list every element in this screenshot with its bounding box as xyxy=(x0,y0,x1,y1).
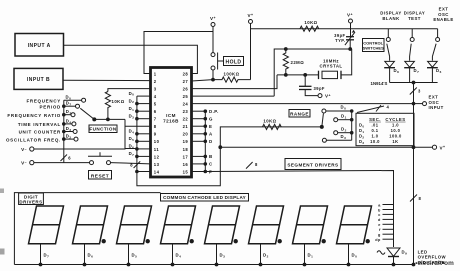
wire stub to D bus xyxy=(125,148,137,150)
wire pin 19 D xyxy=(192,140,206,142)
bus slash 8 left xyxy=(134,161,141,168)
svg-text:22: 22 xyxy=(183,117,189,122)
wire control top rail xyxy=(251,28,438,30)
svg-text:f: f xyxy=(379,228,381,232)
LED D9 overflow xyxy=(387,248,400,256)
resistor R4 10K function pullup xyxy=(105,92,110,120)
svg-text:16: 16 xyxy=(183,162,189,167)
svg-text:LED: LED xyxy=(418,249,428,254)
svg-text:3: 3 xyxy=(418,89,421,94)
function contact row UNIT COUNTER D3 xyxy=(63,130,66,133)
svg-text:14: 14 xyxy=(154,169,160,174)
wire function common xyxy=(94,118,125,120)
svg-text:9: 9 xyxy=(154,132,157,137)
svg-text:18: 18 xyxy=(183,147,189,152)
svg-text:c: c xyxy=(378,213,381,217)
wire bus 4 into table xyxy=(357,106,384,113)
resistor R5 10K range xyxy=(263,124,282,129)
digit 2 seven segment xyxy=(73,206,108,244)
range contact D3 xyxy=(322,138,326,142)
svg-text:d: d xyxy=(378,218,381,222)
svg-text:0.1: 0.1 xyxy=(371,128,378,133)
wire pin 4 D0 xyxy=(137,95,151,97)
switch S5 display blank xyxy=(387,29,389,38)
wire trimmer to crystal rail xyxy=(349,40,351,49)
svg-text:G: G xyxy=(209,117,213,122)
power V+ terminal 1 xyxy=(211,23,215,27)
svg-text:UNIT COUNTER: UNIT COUNTER xyxy=(19,130,61,135)
svg-text:F: F xyxy=(209,169,212,174)
svg-text:RESET: RESET xyxy=(91,173,109,179)
svg-text:OSCILLATOR FREQ.: OSCILLATOR FREQ. xyxy=(6,137,61,142)
svg-text:D: D xyxy=(209,139,213,144)
svg-text:10: 10 xyxy=(154,139,160,144)
op-amp U1 ICM7216B IC body xyxy=(151,68,192,178)
segment ladder tick f xyxy=(383,228,394,230)
svg-text:1.0: 1.0 xyxy=(371,134,378,139)
wire function select bus xyxy=(63,100,65,162)
node function common 10K xyxy=(107,118,110,121)
svg-text:1N914'S: 1N914'S xyxy=(371,81,388,86)
switch S2 FUNCTION blade xyxy=(93,118,96,121)
node 22M top xyxy=(284,48,287,51)
svg-text:15: 15 xyxy=(183,169,189,174)
svg-text:INPUT: INPUT xyxy=(429,105,444,110)
label box CONTROL SWITCHES xyxy=(363,39,385,52)
svg-text:TIME INTERVAL: TIME INTERVAL xyxy=(18,122,61,127)
wire pin 16 C xyxy=(192,163,206,165)
wire V- to reset xyxy=(34,162,90,164)
range contact D0 xyxy=(322,109,326,113)
wire display common bottom bus xyxy=(14,264,413,266)
svg-text:21: 21 xyxy=(183,124,189,129)
wire pin 24 to ext osc node xyxy=(192,103,414,105)
node 22M bottom xyxy=(284,74,287,77)
svg-text:CRYSTAL: CRYSTAL xyxy=(320,64,343,69)
segment ladder tick e xyxy=(383,223,394,225)
svg-text:6: 6 xyxy=(154,109,157,114)
label box HOLD xyxy=(224,57,244,66)
label box COMMON CATHODE LED DISPLAY xyxy=(161,194,249,202)
svg-text:100.0: 100.0 xyxy=(389,134,402,139)
svg-text:39pF: 39pF xyxy=(314,86,325,91)
digit 1 lead D7 xyxy=(40,244,42,265)
svg-text:•eleciruit•om: •eleciruit•om xyxy=(415,260,454,267)
wire INPUT A to pin 28 xyxy=(64,45,198,73)
decimal point digit 2 xyxy=(102,240,105,243)
svg-text:DISPLAY: DISPLAY xyxy=(380,11,401,16)
input jack INPUT A box xyxy=(15,34,64,57)
svg-text:7: 7 xyxy=(154,117,157,122)
digit 5 seven segment xyxy=(205,206,240,244)
wire 100K to V+ 2 xyxy=(250,24,252,80)
digit 4 lead D4 xyxy=(172,244,174,265)
svg-text:b: b xyxy=(378,208,381,212)
bus slash 8 right xyxy=(410,195,417,202)
digit 4 seven segment xyxy=(161,206,196,244)
terminal V- 2 xyxy=(30,161,34,165)
svg-text:25: 25 xyxy=(183,94,189,99)
svg-text:A: A xyxy=(209,132,213,137)
svg-text:PERIOD: PERIOD xyxy=(40,104,62,109)
svg-text:100KΩ: 100KΩ xyxy=(224,72,240,77)
wire pin 6 D1 xyxy=(136,110,139,113)
svg-text:E: E xyxy=(209,124,212,129)
bus slash 6 xyxy=(61,155,68,162)
svg-text:1.0: 1.0 xyxy=(392,123,399,128)
input jack INPUT B box xyxy=(14,68,63,89)
bus slash 3 xyxy=(410,88,417,95)
function contact row FREQUENCY D0 xyxy=(64,99,82,101)
function contact row FREQ RATIO D1 xyxy=(63,113,66,116)
diode D6 xyxy=(431,57,433,61)
svg-text:SWITCHES: SWITCHES xyxy=(363,46,384,51)
svg-text:26: 26 xyxy=(183,87,189,92)
digit 6 seven segment xyxy=(249,206,284,244)
svg-text:OSC: OSC xyxy=(429,100,440,105)
capacitor C2 39pF xyxy=(304,75,306,86)
function contact row OSCILLATOR FREQ D2 xyxy=(63,138,66,141)
wire pin 8 stub xyxy=(125,125,151,127)
svg-text:23: 23 xyxy=(183,109,189,114)
wire crystal right to rail xyxy=(341,49,352,75)
power V+ terminal 3 xyxy=(349,19,353,23)
svg-text:C: C xyxy=(209,162,213,167)
wire junction to pin 27 xyxy=(192,80,214,81)
wire diode common xyxy=(390,82,438,84)
digit 1 seven segment xyxy=(29,206,64,244)
svg-text:2: 2 xyxy=(154,79,157,84)
wire pin 21 E xyxy=(192,125,206,127)
svg-text:TEST: TEST xyxy=(408,16,421,21)
wire pin 20 A xyxy=(192,133,206,135)
switch S6 display test xyxy=(411,29,413,38)
svg-text:HOLD: HOLD xyxy=(226,60,242,66)
svg-text:11: 11 xyxy=(154,147,160,152)
svg-text:4: 4 xyxy=(154,94,157,99)
table decimal point select box xyxy=(356,113,414,145)
function contact row TIME INTERVAL D4 xyxy=(63,123,66,126)
segment ladder tick b xyxy=(383,209,394,211)
resistor R1 100K xyxy=(213,77,251,82)
wire range node to Vplus right xyxy=(220,146,432,148)
digit 3 lead D5 xyxy=(128,244,130,265)
svg-text:BLANK: BLANK xyxy=(382,16,400,21)
svg-text:D.P.: D.P. xyxy=(209,109,219,114)
svg-text:INPUT B: INPUT B xyxy=(27,77,50,83)
svg-text:10KΩ: 10KΩ xyxy=(112,99,125,104)
terminal EXT OSC INPUT xyxy=(423,102,427,106)
svg-text:DRIVERS: DRIVERS xyxy=(19,200,42,205)
function contact row PERIOD D7 xyxy=(63,105,66,108)
svg-text:SEC.: SEC. xyxy=(369,117,381,122)
decimal point digit 6 xyxy=(278,240,281,243)
switch S7 ext osc enable xyxy=(437,29,439,38)
wire reset to pin 13 xyxy=(111,163,151,164)
diode D8 xyxy=(389,57,391,61)
resistor R2 10K top xyxy=(300,26,319,31)
digit 7 seven segment xyxy=(293,206,328,244)
svg-text:EXT: EXT xyxy=(439,7,449,12)
svg-text:g: g xyxy=(378,233,381,237)
svg-text:DISPLAY: DISPLAY xyxy=(404,11,425,16)
range contact D2 xyxy=(334,131,338,135)
wire pin 14 range xyxy=(137,171,151,173)
wire pin 10 D5 xyxy=(136,140,139,143)
wire segment drivers line xyxy=(205,171,393,248)
wire range collector xyxy=(351,111,353,140)
svg-text:12: 12 xyxy=(154,154,160,159)
digit 6 lead D2 xyxy=(260,244,262,265)
label box RESET xyxy=(89,171,112,180)
range contact D1 xyxy=(334,118,338,122)
svg-text:3: 3 xyxy=(154,87,157,92)
svg-text:e: e xyxy=(378,223,381,227)
label box DIGIT DRIVERS xyxy=(19,193,44,205)
digit 2 lead D6 xyxy=(84,244,86,265)
decimal point digit 3 xyxy=(146,240,149,243)
wire pin 17 B xyxy=(192,155,206,157)
wire INPUT B to pin 2 xyxy=(63,79,151,81)
svg-text:ICM: ICM xyxy=(166,113,176,118)
wire pin 3 to 10K xyxy=(108,89,151,92)
svg-text:13: 13 xyxy=(154,162,160,167)
svg-text:8: 8 xyxy=(130,163,133,168)
svg-text:10.0: 10.0 xyxy=(370,139,380,144)
wire control bus down right side xyxy=(413,83,415,265)
decimal point digit 7 xyxy=(322,240,325,243)
svg-text:10.0: 10.0 xyxy=(391,128,401,133)
switch S4 RANGE blade xyxy=(320,125,323,128)
svg-text:dp: dp xyxy=(375,238,381,242)
wire range node down and under IC xyxy=(137,127,322,186)
wire pin 1 to hold switch top xyxy=(144,32,213,74)
switch S1 HOLD pushbutton xyxy=(211,53,215,57)
svg-text:28: 28 xyxy=(183,71,189,76)
svg-text:OSC: OSC xyxy=(438,12,449,17)
resistor R3 22M xyxy=(283,49,288,75)
wire pin 23 DP xyxy=(192,110,206,112)
wire pin 26 up xyxy=(192,75,278,89)
label box SEGMENT DRIVERS xyxy=(285,159,341,170)
svg-text:a: a xyxy=(378,203,381,207)
decimal point digit 8 xyxy=(366,240,369,243)
wire hold bottom to pin 27 junction xyxy=(212,70,214,80)
power V+ terminal 4 xyxy=(318,94,322,98)
digit 5 lead D3 xyxy=(216,244,218,265)
label box FUNCTION xyxy=(89,125,117,133)
wire crystal top rail xyxy=(274,49,352,96)
svg-text:4: 4 xyxy=(387,105,390,110)
bus slash 8 segment xyxy=(246,162,253,169)
svg-text:20: 20 xyxy=(183,132,189,137)
segment ladder tick g xyxy=(383,233,394,235)
svg-text:OVERFLOW: OVERFLOW xyxy=(418,255,447,260)
digit 8 lead D0 xyxy=(348,244,350,265)
svg-text:SEGMENT DRIVERS: SEGMENT DRIVERS xyxy=(287,163,338,168)
wire pin 9 D4 xyxy=(136,133,139,136)
svg-text:5: 5 xyxy=(154,102,157,107)
decimal point digit 4 xyxy=(190,240,193,243)
wire segment bus vertical xyxy=(204,111,206,171)
svg-text:17: 17 xyxy=(183,154,189,159)
svg-text:19: 19 xyxy=(183,139,189,144)
node junction pin27 xyxy=(212,78,215,81)
wire pin 5 D2 xyxy=(136,102,139,105)
power V+ terminal right xyxy=(432,145,436,149)
wire crystal left node xyxy=(277,74,319,76)
segment ladder tick a xyxy=(383,204,394,206)
wire pin 7 D3 xyxy=(136,117,139,120)
crystal Y1 10MHz xyxy=(318,71,320,79)
svg-text:INPUT A: INPUT A xyxy=(28,43,51,49)
decimal point digit 5 xyxy=(234,240,237,243)
segment ladder tick d xyxy=(383,218,394,220)
node cap branch xyxy=(304,74,307,77)
svg-text:.01: .01 xyxy=(371,123,378,128)
svg-text:1: 1 xyxy=(154,71,157,76)
digit 8 seven segment xyxy=(337,206,372,244)
diode D7 xyxy=(409,57,411,61)
segment ladder tick dp xyxy=(383,238,394,240)
svg-text:CYCLES: CYCLES xyxy=(385,117,405,122)
svg-text:8: 8 xyxy=(419,196,422,201)
svg-text:COMMON CATHODE LED DISPLAY: COMMON CATHODE LED DISPLAY xyxy=(163,195,246,200)
wire pin 11 D6 xyxy=(136,148,139,151)
wire pin 12 D7 xyxy=(136,155,139,158)
wire pin 25 to rail xyxy=(192,95,275,97)
label box RANGE xyxy=(289,110,310,118)
display box left edge xyxy=(14,193,160,265)
scan smudge 2 xyxy=(0,249,5,255)
svg-text:10KΩ: 10KΩ xyxy=(263,119,276,124)
wire common to pin 8 and V- xyxy=(34,119,125,149)
svg-text:FREQUENCY: FREQUENCY xyxy=(26,98,61,103)
svg-text:RANGE: RANGE xyxy=(290,112,309,117)
svg-text:10KΩ: 10KΩ xyxy=(304,20,317,25)
svg-text:TYP.: TYP. xyxy=(335,38,345,43)
svg-text:FREQUENCY RATIO: FREQUENCY RATIO xyxy=(7,113,61,118)
LED squiggle mark xyxy=(377,251,385,255)
svg-text:7216B: 7216B xyxy=(163,119,179,124)
svg-text:B: B xyxy=(209,154,213,159)
scan smudge 1 xyxy=(0,189,4,194)
svg-text:6: 6 xyxy=(68,156,71,161)
svg-text:22MΩ: 22MΩ xyxy=(291,60,305,65)
wire V+ to hold switch xyxy=(212,27,214,53)
capacitor C1 trimmer 39pF xyxy=(346,36,354,38)
switch S3 RESET pushbutton xyxy=(90,161,94,165)
svg-text:1K: 1K xyxy=(392,139,398,144)
svg-text:ENABLE: ENABLE xyxy=(433,17,453,22)
wire V+ to trimmer xyxy=(350,23,352,37)
segment ladder tick c xyxy=(383,213,394,215)
terminal V- 1 xyxy=(30,147,34,151)
digit 3 seven segment xyxy=(117,206,152,244)
wire D bus vertical xyxy=(136,96,138,171)
svg-text:8: 8 xyxy=(255,162,258,167)
svg-text:EXT: EXT xyxy=(429,95,439,100)
wire pin 15 F segment line xyxy=(192,171,206,173)
wire pin 22 G xyxy=(192,118,206,120)
digit 7 lead D1 xyxy=(304,244,306,265)
svg-text:8: 8 xyxy=(154,124,157,129)
svg-text:24: 24 xyxy=(183,102,189,107)
node V+ tap xyxy=(412,146,415,149)
power V+ terminal 2 xyxy=(249,20,253,24)
svg-text:FUNCTION: FUNCTION xyxy=(89,127,117,132)
svg-text:27: 27 xyxy=(183,79,189,84)
